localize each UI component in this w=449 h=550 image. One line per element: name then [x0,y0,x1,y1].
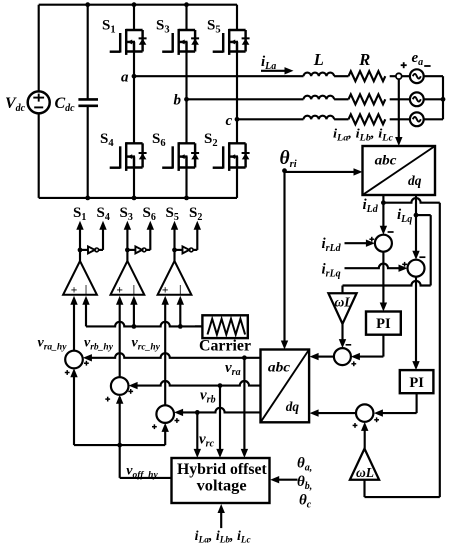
svg-text:c: c [226,113,233,129]
svg-text:|: | [179,284,182,296]
svg-text:a: a [121,70,129,86]
svg-text:ωL: ωL [356,465,374,480]
svg-text:+: + [162,284,169,296]
svg-text:PI: PI [376,316,391,332]
svg-text:+: + [116,284,123,296]
svg-text:dq: dq [408,174,421,189]
svg-text:ωL: ωL [335,295,353,310]
svg-text:Hybrid offset: Hybrid offset [177,461,268,478]
svg-text:abc: abc [375,154,398,169]
svg-text:L: L [313,50,324,69]
svg-text:voltage: voltage [197,478,247,495]
svg-text:PI: PI [409,375,424,391]
svg-text:+: + [71,284,78,296]
svg-text:b: b [174,93,182,109]
svg-text:|: | [85,284,88,296]
svg-text:Carrier: Carrier [199,338,251,355]
svg-text:|: | [133,284,136,296]
svg-text:dq: dq [286,400,299,415]
svg-text:R: R [358,50,370,69]
svg-text:abc: abc [268,361,291,376]
